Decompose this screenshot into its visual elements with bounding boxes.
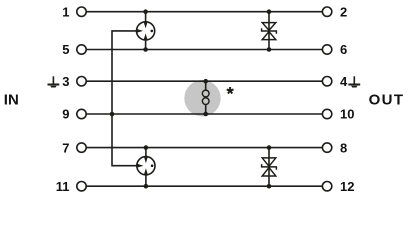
junction spark gap / row 3-4: [203, 79, 208, 84]
terminal 10: [322, 107, 354, 122]
terminal 12: [322, 179, 354, 194]
wire GDT1 bottom lead: [145, 40, 147, 50]
ground symbol left (terminal 3): [48, 76, 60, 87]
wire TVS2 column: [268, 148, 270, 187]
svg-text:8: 8: [340, 140, 347, 155]
wire row 3-4 (earth line): [86, 80, 322, 82]
terminal 7: [62, 140, 86, 155]
terminal 1: [62, 4, 86, 19]
svg-text:9: 9: [62, 107, 69, 122]
terminal 6: [322, 42, 347, 57]
svg-text:1: 1: [62, 4, 69, 19]
junction TVS1 / row 5-6: [267, 47, 272, 52]
junction bus / row 9-10: [110, 112, 115, 117]
highlight circle (optional component marker): [184, 80, 220, 116]
wire GDT2 bottom lead: [145, 175, 147, 187]
wire row 9-10: [86, 113, 322, 115]
junction GDT1 / row 1-2: [143, 9, 148, 14]
junction GDT2 / row 7-8: [144, 145, 149, 150]
svg-text:4: 4: [340, 74, 348, 89]
svg-text:10: 10: [340, 107, 354, 122]
terminal 9: [62, 107, 86, 122]
terminal 8: [322, 140, 347, 155]
svg-text:7: 7: [62, 140, 69, 155]
svg-text:OUT: OUT: [369, 92, 405, 109]
terminal 4: [322, 74, 348, 89]
wire spark gap top lead: [205, 81, 207, 90]
wire spark gap bottom lead: [205, 104, 207, 114]
wire row 7-8: [86, 147, 322, 149]
junction TVS1 / row 1-2: [267, 9, 272, 14]
bidirectional suppressor diode (top): [262, 23, 277, 40]
wire TVS1 column: [268, 12, 270, 50]
svg-text:2: 2: [340, 4, 347, 19]
terminal 11: [56, 179, 86, 194]
junction TVS2 / row 11-12: [267, 184, 272, 189]
gas discharge tube (bottom, 3-electrode arrester): [137, 157, 155, 175]
terminal 3: [62, 74, 86, 89]
isolating spark gap (optional, see *): [202, 90, 209, 104]
junction GDT1 / row 5-6: [143, 47, 148, 52]
junction TVS2 / row 7-8: [267, 145, 272, 150]
svg-text:11: 11: [56, 179, 70, 194]
ground symbol right (terminal 4): [348, 76, 360, 87]
svg-text:3: 3: [62, 74, 69, 89]
footnote asterisk: [227, 87, 234, 94]
terminal 2: [322, 4, 347, 19]
bidirectional suppressor diode (bottom): [262, 158, 277, 176]
junction GDT2 / row 11-12: [144, 184, 149, 189]
wire row 5-6: [86, 49, 322, 51]
junction spark gap / row 9-10: [203, 112, 208, 117]
wire GDT1 top lead: [145, 12, 147, 22]
svg-text:5: 5: [62, 42, 69, 57]
gas discharge tube (top, 3-electrode arrester): [137, 22, 155, 40]
wire center-electrode bus: [112, 31, 137, 166]
wire row 11-12: [86, 185, 322, 187]
svg-text:IN: IN: [4, 92, 19, 109]
wire GDT2 top lead: [145, 148, 147, 157]
svg-text:12: 12: [340, 179, 354, 194]
terminal 5: [62, 42, 86, 57]
svg-text:6: 6: [340, 42, 347, 57]
wire row 1-2: [86, 11, 322, 13]
